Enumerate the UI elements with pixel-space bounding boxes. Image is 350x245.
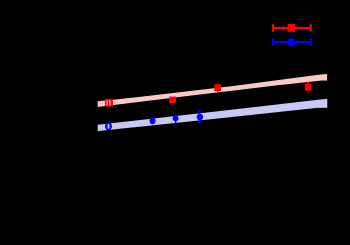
blue point P2 <box>150 117 156 124</box>
blue point P4 error bar <box>198 111 201 123</box>
red point P3 <box>214 84 221 91</box>
legend red square marker <box>288 24 296 32</box>
red point P2 <box>169 97 176 104</box>
legend blue errorbar line <box>273 38 312 45</box>
red point P4 <box>305 84 312 91</box>
blue CI band <box>98 99 328 131</box>
red CI band <box>98 74 327 107</box>
blue point P3 error bar <box>175 114 177 124</box>
legend red errorbar line <box>273 24 312 31</box>
blue point P3 <box>173 115 179 121</box>
red point pair P1 (two overlapping squares) <box>105 99 113 107</box>
blue point P4 <box>197 114 204 121</box>
legend blue circle marker <box>287 38 295 46</box>
red point P3 error bar <box>217 83 219 92</box>
red point P4 error bar <box>307 82 310 91</box>
blue point pair P1 (two overlapping circles) <box>105 122 112 130</box>
